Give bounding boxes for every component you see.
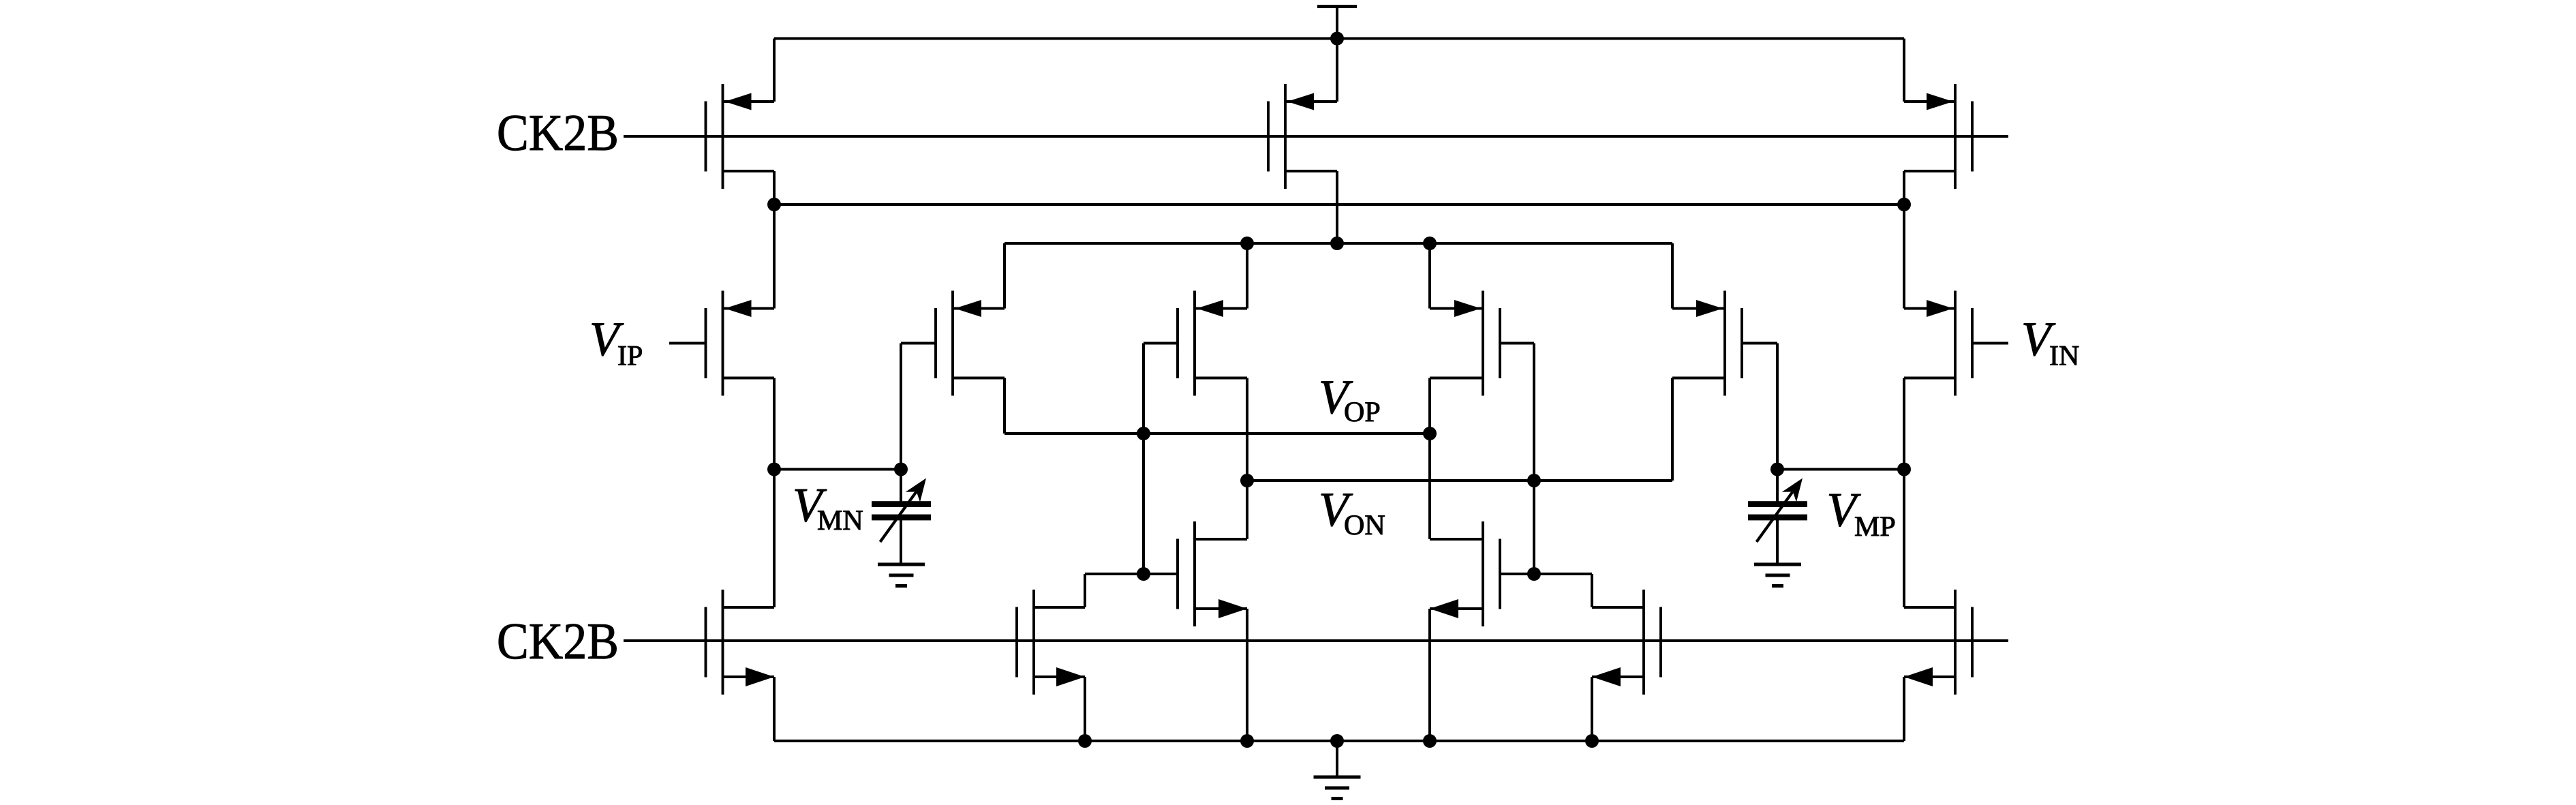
wire: M1 source up	[773, 39, 776, 102]
node: right common junction	[1897, 198, 1911, 211]
node: VON-P2 junction	[1240, 474, 1254, 487]
node: N2 gate junction	[1527, 567, 1541, 581]
node: N1 gate junction	[1137, 567, 1150, 581]
wire: rail to P1 source	[1003, 243, 1006, 309]
wire: P4 gate stub	[1742, 342, 1777, 345]
wire: P2/N1 gate cross-couple	[1142, 344, 1145, 575]
transistor N1 (latch NMOS left)	[1178, 521, 1247, 626]
transistor M6 (clock NMOS inner-right)	[1592, 590, 1661, 695]
node: bottom rail N4 source junction	[1585, 734, 1599, 748]
label V_IP	[589, 313, 643, 372]
node: VOP-crosscouple junction	[1137, 427, 1150, 440]
wire: P4 drain to VON	[1671, 378, 1674, 481]
node: left common junction	[767, 198, 781, 211]
wire: VMP net	[1777, 468, 1904, 471]
wire: VMN cap stem top	[900, 470, 902, 503]
node: bottom rail N2 source junction	[1423, 734, 1437, 748]
node: VON-crosscouple junction	[1527, 474, 1541, 487]
wire: P2 drain to N1 drain	[1246, 378, 1248, 540]
wire: common source node line	[774, 203, 1904, 206]
wire: P1 gate stub	[901, 342, 936, 345]
node: bottom rail N1 source junction	[1240, 734, 1254, 748]
node: rail-P3 junction	[1423, 237, 1437, 250]
node: bottom rail N3 source junction	[1078, 734, 1092, 748]
transistor N2 (latch NMOS right)	[1430, 521, 1500, 626]
svg-text:OP: OP	[1344, 397, 1381, 428]
wire: P3/N2 gate cross-couple	[1533, 344, 1535, 575]
svg-text:IN: IN	[2049, 341, 2079, 372]
node: VMN-left junction	[767, 463, 781, 476]
transistor M5 (clock NMOS inner-left)	[1017, 590, 1085, 695]
svg-text:CK2B: CK2B	[497, 613, 619, 670]
wire: M1 drain to VIP source	[773, 171, 776, 309]
ground (main)	[1314, 777, 1361, 799]
wire: P1 gate down to VMN	[900, 344, 902, 470]
wire: P3 gate stub	[1500, 342, 1534, 345]
wire: M3 source up	[1903, 39, 1905, 102]
label V_ON	[1319, 483, 1385, 541]
wire: M5 source down	[1084, 677, 1086, 741]
node: VMN-cap junction	[894, 463, 908, 476]
VDD supply symbol	[1317, 7, 1357, 39]
wire: VMP cap stem bottom	[1776, 519, 1779, 564]
wire: ground bottom rail	[774, 740, 1904, 742]
transistor P4 (latch PMOS)	[1672, 291, 1742, 396]
svg-text:CK2B: CK2B	[497, 104, 619, 162]
transistor M7 (clock NMOS outer-right)	[1904, 590, 1972, 695]
wire: rail to P2 source	[1246, 243, 1248, 309]
wire: CK2B gate line (top)	[624, 135, 2008, 138]
wire: VOP net	[1005, 432, 1430, 435]
node: VDD rail junction	[1330, 32, 1344, 46]
wire: N2 gate link	[1500, 573, 1592, 575]
wire: VIP drain to M4 drain	[773, 378, 776, 608]
wire: P3 drain to N2 drain	[1428, 378, 1431, 540]
wire: rail to P3 source	[1428, 243, 1431, 309]
svg-text:IP: IP	[617, 341, 643, 372]
wire: CK2B gate line (bottom)	[624, 639, 2008, 642]
wire: VIN drain to M7 drain	[1903, 378, 1905, 608]
label V_MN	[793, 479, 863, 537]
transistor M2 (clock PMOS middle)	[1268, 84, 1337, 189]
node: rail-P2 junction	[1240, 237, 1254, 250]
transistor P1 (latch PMOS)	[936, 291, 1005, 396]
wire: M2 drain to inner rail	[1336, 171, 1338, 243]
transistor P3 (latch PMOS)	[1430, 291, 1500, 396]
wire: M7 source down	[1903, 677, 1905, 741]
label V_MP	[1827, 484, 1896, 543]
node: rail-center junction	[1330, 237, 1344, 250]
wire: VMP cap stem top	[1776, 470, 1779, 503]
ground (below CMN)	[878, 564, 925, 586]
wire: VON net	[1247, 479, 1672, 482]
wire: P1 drain to VOP	[1003, 378, 1006, 434]
capacitor CMN (variable)	[872, 479, 931, 543]
wire: N1 source down	[1246, 609, 1248, 741]
wire: N1 gate link	[1085, 573, 1178, 575]
wire: VDD top rail	[774, 37, 1904, 40]
node: VMP-right junction	[1897, 463, 1911, 476]
label V_IN	[2021, 313, 2079, 372]
wire: M3 drain to VIN source	[1903, 171, 1905, 309]
wire: N2 source down	[1428, 609, 1431, 741]
wire: VMN cap stem bottom	[900, 519, 902, 564]
wire: inner PMOS source rail	[1005, 242, 1672, 245]
label V_OP	[1319, 371, 1381, 428]
wire: main ground stem	[1336, 741, 1338, 777]
transistor MIP (input PMOS VIP)	[706, 291, 775, 396]
svg-text:ON: ON	[1344, 510, 1385, 541]
wire: M6 source down	[1591, 677, 1593, 741]
node: bottom rail ground stem junction	[1330, 734, 1344, 748]
wire: VMN net	[774, 468, 901, 471]
wire: VIP gate stub	[669, 342, 706, 345]
transistor MIN (input PMOS VIN)	[1904, 291, 1972, 396]
wire: M2 source up	[1336, 39, 1338, 102]
wire: VIN gate stub	[1972, 342, 2008, 345]
wire: P4 gate down to VMP	[1776, 344, 1779, 470]
wire: M4 source down	[773, 677, 776, 741]
transistor M4 (clock NMOS outer-left)	[706, 590, 775, 695]
wire: rail to P4 source	[1671, 243, 1674, 309]
svg-text:MN: MN	[817, 505, 863, 536]
wire: N2 gate to M6 drain	[1591, 574, 1593, 607]
ground (below CMP)	[1754, 564, 1801, 586]
svg-text:MP: MP	[1854, 511, 1896, 543]
node: VOP-N2 junction	[1423, 427, 1437, 440]
capacitor CMP (variable)	[1748, 479, 1807, 543]
wire: P2 gate stub	[1144, 342, 1178, 345]
node: VMP-cap junction	[1770, 463, 1784, 476]
transistor P2 (latch PMOS)	[1178, 291, 1247, 396]
transistor M3 (clock PMOS right)	[1904, 84, 1972, 189]
wire: N1 gate to M5 drain	[1084, 574, 1086, 607]
transistor M1 (clock PMOS left)	[706, 84, 775, 189]
